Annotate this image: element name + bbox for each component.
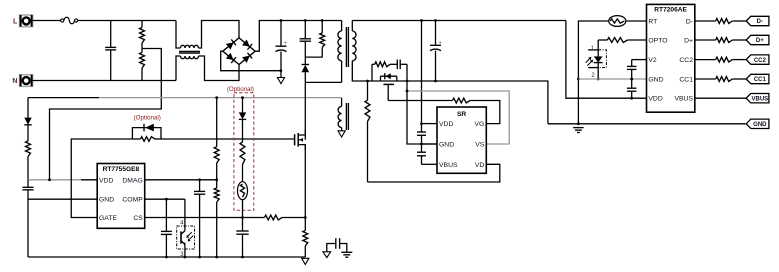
svg-text:VBUS: VBUS	[752, 96, 769, 102]
U4 pin RT	[648, 18, 657, 25]
svg-text:+: +	[438, 40, 442, 47]
label N	[12, 78, 17, 85]
capacitor C5 (COMP)	[161, 199, 172, 257]
wire U4 GND gray	[578, 78, 646, 81]
resistor (CC1 series)	[695, 77, 746, 82]
wire aux net gray	[99, 97, 342, 99]
resistor R2 (divider lower)	[140, 49, 145, 81]
transformer T1 aux winding	[338, 98, 341, 131]
svg-text:CC2: CC2	[679, 57, 693, 64]
resistor R8 (CS series)	[265, 215, 307, 220]
bridge rectifier BD1	[223, 38, 255, 65]
svg-text:L: L	[13, 18, 18, 25]
resistor R7 (DMAG lower)	[214, 180, 219, 257]
svg-text:GND: GND	[753, 122, 767, 128]
wire SR VDD feed	[421, 21, 423, 124]
clamp diode D1	[302, 57, 310, 82]
wire L to fuse	[33, 20, 61, 22]
svg-text:VDD: VDD	[439, 121, 453, 128]
svg-text:D-: D-	[686, 18, 693, 25]
svg-text:GATE: GATE	[99, 215, 117, 222]
wire U3 VD	[368, 164, 500, 182]
svg-text:VG: VG	[474, 121, 484, 128]
svg-text:+: +	[284, 40, 288, 47]
output capacitor C7	[430, 21, 441, 83]
wire U1 GND	[28, 199, 97, 257]
wire U1 DMAG	[145, 178, 218, 181]
transformer T1 secondary	[352, 21, 377, 82]
svg-text:OPTO: OPTO	[648, 37, 667, 44]
U4 pin VDD	[648, 96, 662, 103]
U1 pin VDD	[99, 177, 113, 184]
U4 pin D-	[686, 18, 693, 25]
wire bridge DC- to primary GND	[221, 51, 281, 70]
wire VDD line black	[48, 178, 97, 181]
wire U3 VDD	[420, 122, 437, 125]
wire U4 V2	[632, 59, 647, 61]
label pin 3	[180, 252, 184, 258]
svg-text:SR: SR	[457, 111, 466, 118]
resistor R9 (OTP)	[240, 142, 245, 182]
wire divider tap to VDD	[50, 49, 162, 180]
wire VG gate line	[388, 100, 452, 102]
thermistor NTC1	[238, 182, 248, 218]
clamp resistor R3	[305, 19, 324, 57]
U3 pin VG	[474, 121, 484, 128]
wire gate line	[161, 138, 295, 140]
ground aux winding	[338, 131, 345, 137]
wire L rail	[78, 20, 176, 22]
svg-text:CC1: CC1	[679, 76, 693, 83]
connector J1 (L input)	[20, 15, 33, 27]
label pin 1	[591, 46, 595, 52]
fuse F1	[61, 17, 78, 23]
svg-text:RT7206AE: RT7206AE	[654, 7, 687, 14]
U4 pin V2	[648, 57, 657, 64]
connector D+	[746, 35, 769, 44]
diode D3 (optional gate)	[132, 124, 161, 139]
wire Q1 source	[304, 145, 306, 218]
wire U1 GATE	[71, 139, 132, 218]
ground secondary	[573, 128, 584, 133]
capacitor C3 (VDD)	[22, 180, 33, 199]
wire U3 VBUS	[422, 163, 438, 165]
svg-text:VD: VD	[475, 162, 485, 169]
U4 pin D+	[684, 37, 693, 44]
capacitor C9 (SR VDD)	[417, 124, 426, 146]
svg-text:VDD: VDD	[99, 177, 113, 184]
wire VDD line gray	[28, 179, 81, 181]
optocoupler U2 transistor	[177, 199, 195, 257]
label pin 2	[591, 73, 595, 79]
label (Optional) OTP	[227, 86, 254, 93]
U4 pin GND	[648, 76, 663, 83]
svg-text:GND: GND	[439, 142, 454, 149]
capacitor C11 (V2)	[627, 60, 637, 79]
X-capacitor CX1	[105, 21, 116, 81]
svg-text:D+: D+	[756, 38, 764, 44]
capacitor C6 (CS filter)	[236, 218, 248, 258]
common-mode choke L1	[176, 21, 239, 81]
resistor (D- series)	[695, 19, 746, 24]
U3 pin VBUS	[439, 162, 458, 169]
svg-text:VS: VS	[475, 142, 485, 149]
U1 pin GATE	[99, 215, 117, 222]
svg-text:GND: GND	[648, 76, 663, 83]
op-amp U4 RT7206AE box	[647, 4, 695, 112]
connector J2 (N input)	[20, 75, 33, 87]
ground Y-cap secondary	[341, 252, 352, 257]
Y-capacitor CY1	[327, 238, 347, 252]
capacitor C10 (SR VBUS)	[417, 144, 426, 164]
U1 pin CS	[133, 215, 143, 222]
U1 pin GND	[99, 197, 114, 204]
wire U3 GND	[422, 143, 438, 145]
ground Y-cap primary	[323, 252, 331, 258]
U3 pin VD	[475, 162, 485, 169]
wire aux net black	[28, 97, 99, 99]
resistor R14 (OPTO)	[598, 38, 646, 43]
connector GND	[746, 119, 769, 128]
svg-text:D+: D+	[684, 37, 693, 44]
U4 pin VBUS	[674, 96, 693, 103]
wire RT net	[577, 21, 609, 124]
wire N rail	[33, 80, 176, 82]
wire output rail	[352, 19, 566, 22]
label + (C7)	[438, 40, 442, 47]
wire SR source line	[366, 80, 548, 124]
wire clamp to primary bottom	[305, 81, 341, 83]
connector CC2	[746, 55, 769, 64]
svg-text:N: N	[12, 78, 17, 85]
U3 pin VS	[475, 142, 485, 149]
U4 pin CC1	[679, 76, 693, 83]
diode D2 (VDD rectifier)	[24, 98, 31, 141]
svg-text:V2: V2	[648, 57, 657, 64]
U3 pin GND	[439, 142, 454, 149]
svg-text:COMP: COMP	[122, 197, 143, 204]
U3 pin VDD	[439, 121, 453, 128]
diode D4 (zener)	[239, 96, 246, 142]
svg-text:CC1: CC1	[754, 77, 767, 83]
transistor Q1 (power MOSFET)	[295, 130, 306, 150]
resistor (D+ series)	[695, 38, 746, 43]
svg-text:DMAG: DMAG	[122, 177, 142, 184]
capacitor C4 (DMAG)	[194, 180, 205, 257]
resistor R12 (VG)	[453, 98, 500, 124]
bulk capacitor C1	[276, 19, 287, 77]
svg-text:VBUS: VBUS	[439, 162, 458, 169]
svg-text:(Optional): (Optional)	[227, 86, 254, 93]
transistor Q2 (SR MOSFET)	[381, 73, 397, 100]
label (Optional) gate	[134, 114, 161, 121]
resistor (CC2 series)	[695, 57, 746, 62]
svg-text:D-: D-	[757, 19, 763, 25]
op-amp U1 RT7755GE8 box	[97, 164, 145, 229]
wire U4 VDD	[566, 21, 647, 99]
wire bridge DC+ to rail	[255, 21, 341, 52]
transformer T1 primary	[338, 21, 342, 83]
resistor R1 (divider upper)	[140, 21, 145, 49]
thermistor NTC2 (RT)	[609, 16, 647, 27]
svg-text:(Optional): (Optional)	[134, 114, 161, 121]
resistor R10 (CS shunt)	[303, 218, 308, 258]
wire Q1 drain	[304, 82, 306, 135]
resistor R4 (VDD series)	[26, 141, 31, 180]
capacitor C12 (U4 VDD)	[627, 79, 637, 100]
label L	[13, 18, 18, 25]
resistor R5 (gate)	[132, 137, 161, 142]
svg-text:RT: RT	[648, 18, 657, 25]
connector VBUS	[746, 94, 769, 103]
svg-text:CC2: CC2	[754, 58, 767, 64]
wire snubber to SR GND	[407, 64, 437, 144]
label pin 4	[180, 221, 184, 227]
svg-text:RT7755GE8: RT7755GE8	[103, 166, 140, 173]
resistor R6 (DMAG upper)	[214, 96, 219, 180]
clamp capacitor C2	[300, 19, 311, 57]
snubber capacitor C8	[390, 60, 407, 70]
optocoupler U2 photodiode	[586, 40, 607, 80]
snubber resistor R11	[372, 62, 390, 81]
svg-text:GND: GND	[99, 197, 114, 204]
U1 pin COMP	[122, 197, 143, 204]
wire output GND bus	[548, 122, 746, 125]
ground primary (bulk cap)	[277, 78, 284, 84]
resistor R13 (VD sense)	[365, 81, 370, 182]
optional branch box	[234, 93, 254, 210]
wire VBUS out	[695, 97, 746, 99]
connector CC1	[746, 74, 769, 83]
wire primary GND bus	[28, 256, 305, 259]
U4 pin OPTO	[648, 37, 667, 44]
svg-text:VDD: VDD	[648, 96, 662, 103]
svg-text:CS: CS	[133, 215, 143, 222]
U1 pin DMAG	[122, 177, 142, 184]
wire U1 CS	[145, 216, 265, 219]
wire VS gray	[406, 90, 510, 144]
U4 pin CC2	[679, 57, 693, 64]
svg-text:VBUS: VBUS	[674, 96, 693, 103]
connector D-	[746, 16, 769, 25]
ground primary (shunt)	[302, 258, 309, 264]
label + (C1)	[284, 40, 288, 47]
op-amp U3 SR box	[437, 107, 486, 173]
wire U1 COMP	[145, 198, 185, 201]
transformer T1 core	[346, 27, 348, 130]
